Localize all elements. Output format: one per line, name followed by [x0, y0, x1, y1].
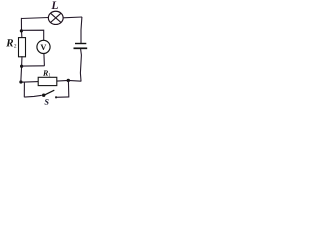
label L [51, 1, 58, 9]
wire R1 left horizontal [21, 81, 39, 84]
wire node-B riser down [67, 80, 69, 96]
switch pivot dot [42, 94, 45, 97]
wire top-left horizontal [21, 18, 48, 19]
node dot: V tap lower [20, 65, 23, 68]
battery plate top (short) [75, 43, 86, 45]
label R2 [6, 39, 13, 46]
wire riser left (x~24.4) [23, 82, 25, 97]
label S [45, 99, 49, 105]
lamp L (circle with X) [48, 11, 63, 24]
wire left vertical upper [20, 18, 23, 38]
node B dot [67, 79, 70, 82]
node A dot [19, 80, 22, 83]
node dot: V tap upper [20, 29, 23, 32]
wire voltmeter bottom [43, 53, 46, 66]
wire bottom-left horizontal [24, 95, 42, 97]
wire top-right horizontal [63, 16, 82, 19]
resistor R2 box [19, 38, 26, 57]
wire voltmeter top [22, 30, 44, 40]
switch blade [44, 90, 55, 95]
wire bottom-right horizontal [55, 96, 69, 98]
switch contact nub [55, 96, 57, 98]
battery plate bottom (long) [74, 47, 88, 49]
resistor R1 box [38, 77, 57, 85]
voltmeter letter [40, 44, 46, 50]
wire voltmeter bottom horizontal [22, 65, 45, 67]
wire node-B horizontal (R1 right to battery) [57, 79, 82, 82]
label R1 [43, 70, 48, 75]
wire left vertical lower [21, 56, 22, 82]
wire right vertical lower [80, 49, 81, 81]
wire right vertical upper [80, 17, 83, 43]
voltmeter V circle [37, 40, 50, 53]
